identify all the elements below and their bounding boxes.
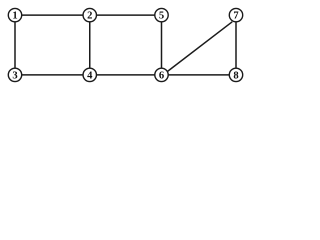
wire edge 1-2 xyxy=(15,14,90,16)
svg-text:6: 6 xyxy=(159,71,164,82)
wire edge 4-6 xyxy=(90,74,162,76)
node 3 xyxy=(8,68,21,81)
svg-text:8: 8 xyxy=(233,71,238,82)
svg-text:4: 4 xyxy=(87,71,93,82)
wire edge 1-3 xyxy=(14,15,16,75)
svg-text:2: 2 xyxy=(87,11,92,22)
wire edge 6-8 xyxy=(162,74,237,76)
wire edge 7-8 xyxy=(235,15,237,75)
node 4 xyxy=(83,68,96,81)
wire edge 2-4 xyxy=(89,15,91,75)
node 6 xyxy=(155,68,168,81)
svg-text:7: 7 xyxy=(233,11,239,22)
svg-text:1: 1 xyxy=(12,11,17,22)
node 2 xyxy=(83,8,96,21)
node 5 xyxy=(155,8,168,21)
node 7 xyxy=(229,8,242,21)
wire edge 3-4 xyxy=(15,74,90,76)
svg-text:5: 5 xyxy=(159,11,164,22)
svg-text:3: 3 xyxy=(12,71,17,82)
node 1 xyxy=(8,8,21,21)
wire edge 6-7 xyxy=(162,22,233,76)
wire edge 5-6 xyxy=(161,15,163,75)
node 8 xyxy=(229,68,242,81)
wire edge 2-5 xyxy=(90,14,162,16)
